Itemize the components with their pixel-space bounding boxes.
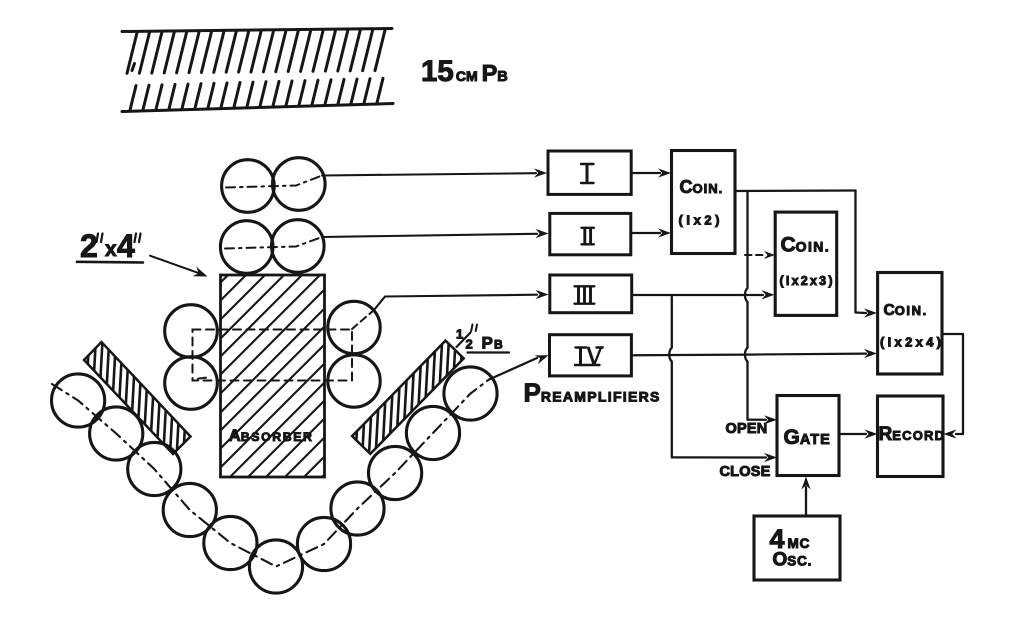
- wire: box III line to COIN (1x2x3): [632, 290, 775, 299]
- chain counter 3: [128, 442, 181, 495]
- box I: [548, 151, 631, 194]
- coincidence unit COIN (1x2x3): [775, 212, 837, 315]
- svg-text:OSC.: OSC.: [773, 550, 813, 571]
- chain counter 6: [249, 540, 302, 593]
- svg-text:(Ix2x4): (Ix2x4): [880, 335, 941, 350]
- svg-text:B: B: [494, 338, 503, 352]
- wire: OPEN branch (from COIN 1x2 line) down to gate: [745, 191, 777, 424]
- record box: [878, 396, 946, 477]
- svg-text:RECORD: RECORD: [879, 424, 946, 445]
- chain counter 1: [52, 374, 105, 427]
- svg-text:OPEN: OPEN: [726, 421, 768, 437]
- wire: COIN (1x2x4) output to record: [942, 334, 963, 439]
- wire: counter pair 1 to box I: [322, 168, 547, 177]
- gate box: [777, 396, 839, 476]
- absorber block: [26, 275, 524, 477]
- box III: [550, 275, 632, 313]
- svg-text:4: 4: [117, 228, 135, 264]
- counter 1 right tube: [273, 158, 326, 211]
- chain counter 10: [406, 406, 459, 459]
- wire: CLOSE branch (from box III line) down to gate: [669, 296, 777, 463]
- coincidence unit COIN (1x2x4): [878, 273, 942, 375]
- leader arrow from 2x4 label to absorber: [150, 256, 208, 277]
- svg-text:CLOSE: CLOSE: [720, 464, 771, 480]
- box II: [550, 213, 631, 254]
- svg-text:2: 2: [80, 228, 98, 264]
- wire: box I to COIN (1x2): [631, 168, 671, 177]
- wire: oscillator to gate: [801, 477, 810, 517]
- counter 1 left tube: [222, 160, 275, 213]
- svg-text:(Ix2x3): (Ix2x3): [780, 274, 833, 288]
- lead slab right (1/2 inch Pb): [349, 332, 470, 462]
- wire: gate to record: [839, 429, 878, 438]
- wire: counter 3 to box III: [352, 290, 549, 329]
- counter right upper tube (3): [328, 301, 380, 353]
- wire: chain counter to box IV: [489, 355, 549, 379]
- svg-text:P: P: [482, 334, 493, 353]
- svg-text:1: 1: [456, 327, 463, 342]
- counter 2 left tube: [220, 221, 273, 274]
- wire: box II to COIN (1x2): [631, 228, 671, 237]
- coincidence unit COIN (1x2): [672, 151, 736, 254]
- dashed wire: branch to COIN (1x2x3) upper input: [745, 251, 775, 259]
- dash-dot particle trajectory through V chain: [52, 380, 489, 567]
- svg-text:2: 2: [466, 337, 473, 352]
- svg-text:x: x: [105, 238, 117, 261]
- chain counter 9: [369, 446, 422, 499]
- counter left upper tube: [165, 305, 218, 358]
- lead shield slab (15 cm Pb): [122, 29, 393, 112]
- lead slab left (1/2 inch Pb): [83, 333, 191, 462]
- wire: box IV line to COIN (1x2x4): [631, 349, 877, 358]
- chain counter 2: [90, 407, 143, 460]
- chain counter 4: [163, 483, 216, 536]
- wire: counter pair 2 to box II: [322, 229, 549, 238]
- label: 1/2 inch Pb: [456, 325, 509, 353]
- oscillator box 4 MC OSC: [754, 516, 840, 580]
- chain counter 11: [444, 367, 497, 420]
- box IV: [550, 335, 632, 376]
- dashed telescope rectangle: [193, 330, 353, 381]
- chain counter 7: [297, 517, 350, 570]
- label: 2 inch x 4 inch: [77, 228, 143, 264]
- dash-dot track through counter pair 2: [225, 237, 322, 249]
- counter right lower tube (4): [328, 355, 380, 407]
- chain counter 8: [331, 482, 384, 535]
- svg-text:COIN.: COIN.: [884, 302, 928, 319]
- counter left lower tube: [165, 357, 218, 410]
- counter 2 right tube: [272, 220, 325, 273]
- dash-dot track through counter pair 1: [226, 176, 322, 188]
- chain counter 5: [204, 516, 257, 569]
- wire: COIN (1x2) output to COIN (1x2x4): [735, 191, 877, 318]
